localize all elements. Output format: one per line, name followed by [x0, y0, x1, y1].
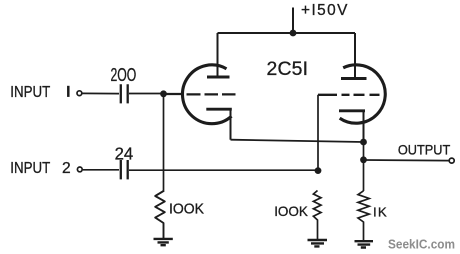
svg-text:2C5I: 2C5I — [267, 58, 309, 80]
wire top bus — [218, 32, 356, 34]
svg-text:IOOK: IOOK — [169, 202, 204, 218]
svg-text:2OO: 2OO — [111, 65, 137, 85]
junction dot grid 2 node — [315, 167, 322, 174]
svg-text:IOOK: IOOK — [274, 203, 308, 219]
ground G2 — [308, 240, 328, 246]
resistor R2 100K — [313, 191, 321, 240]
wire grid1 node down to R1 — [163, 94, 165, 192]
svg-text:2: 2 — [62, 160, 71, 177]
tube envelope U1b (2C51 right triode) — [340, 65, 386, 123]
wire grid2 node up to tube corner — [317, 95, 319, 171]
svg-text:24: 24 — [115, 143, 134, 163]
junction dot top bus — [290, 30, 297, 37]
svg-text:SeekIC.com: SeekIC.com — [388, 236, 455, 251]
svg-text:+I50V: +I50V — [301, 2, 349, 19]
svg-text:OUTPUT: OUTPUT — [398, 143, 450, 158]
wire C2 to grid2 node — [129, 169, 318, 171]
svg-text:INPUT: INPUT — [10, 160, 50, 177]
wire cathode V1a lead down — [230, 109, 232, 140]
wire input1 to C1 — [82, 92, 119, 94]
junction dot grid 1 node — [160, 90, 167, 97]
junction dot common cathode node — [360, 139, 367, 146]
terminal input 2 — [77, 167, 82, 172]
plate bar V1b — [341, 77, 367, 80]
wire cathode node down through output node to R3 — [363, 142, 365, 191]
resistor R3 1K — [358, 191, 369, 241]
terminal output — [449, 158, 454, 163]
wire plate lead V1a — [217, 33, 219, 76]
node +150V supply lead — [292, 8, 294, 34]
cathode V1a bar — [206, 108, 232, 111]
plate bar V1a — [207, 76, 230, 79]
ground G3 — [355, 241, 374, 247]
grid V1b dashed — [318, 94, 380, 96]
capacitor C1 200 — [121, 84, 128, 103]
wire cathode V1b lead down — [363, 111, 365, 143]
terminal input 1 — [77, 91, 82, 96]
grid V1a dashed — [164, 93, 236, 96]
junction dot output node — [360, 156, 367, 163]
wire input2 to C2 — [83, 169, 119, 171]
svg-text:IK: IK — [373, 204, 388, 219]
svg-text:INPUT: INPUT — [10, 84, 50, 101]
wire C1 to grid node — [129, 93, 164, 95]
wire output — [364, 159, 450, 162]
ground G1 — [154, 239, 173, 245]
capacitor C2 24 — [121, 160, 128, 179]
wire cathode V1a to common cathode node — [231, 140, 364, 142]
resistor R1 100K — [155, 191, 165, 239]
tube envelope U1a (2C51 left triode) — [182, 65, 231, 124]
wire plate lead V1b — [354, 33, 356, 78]
cathode V1b bar — [339, 109, 365, 112]
